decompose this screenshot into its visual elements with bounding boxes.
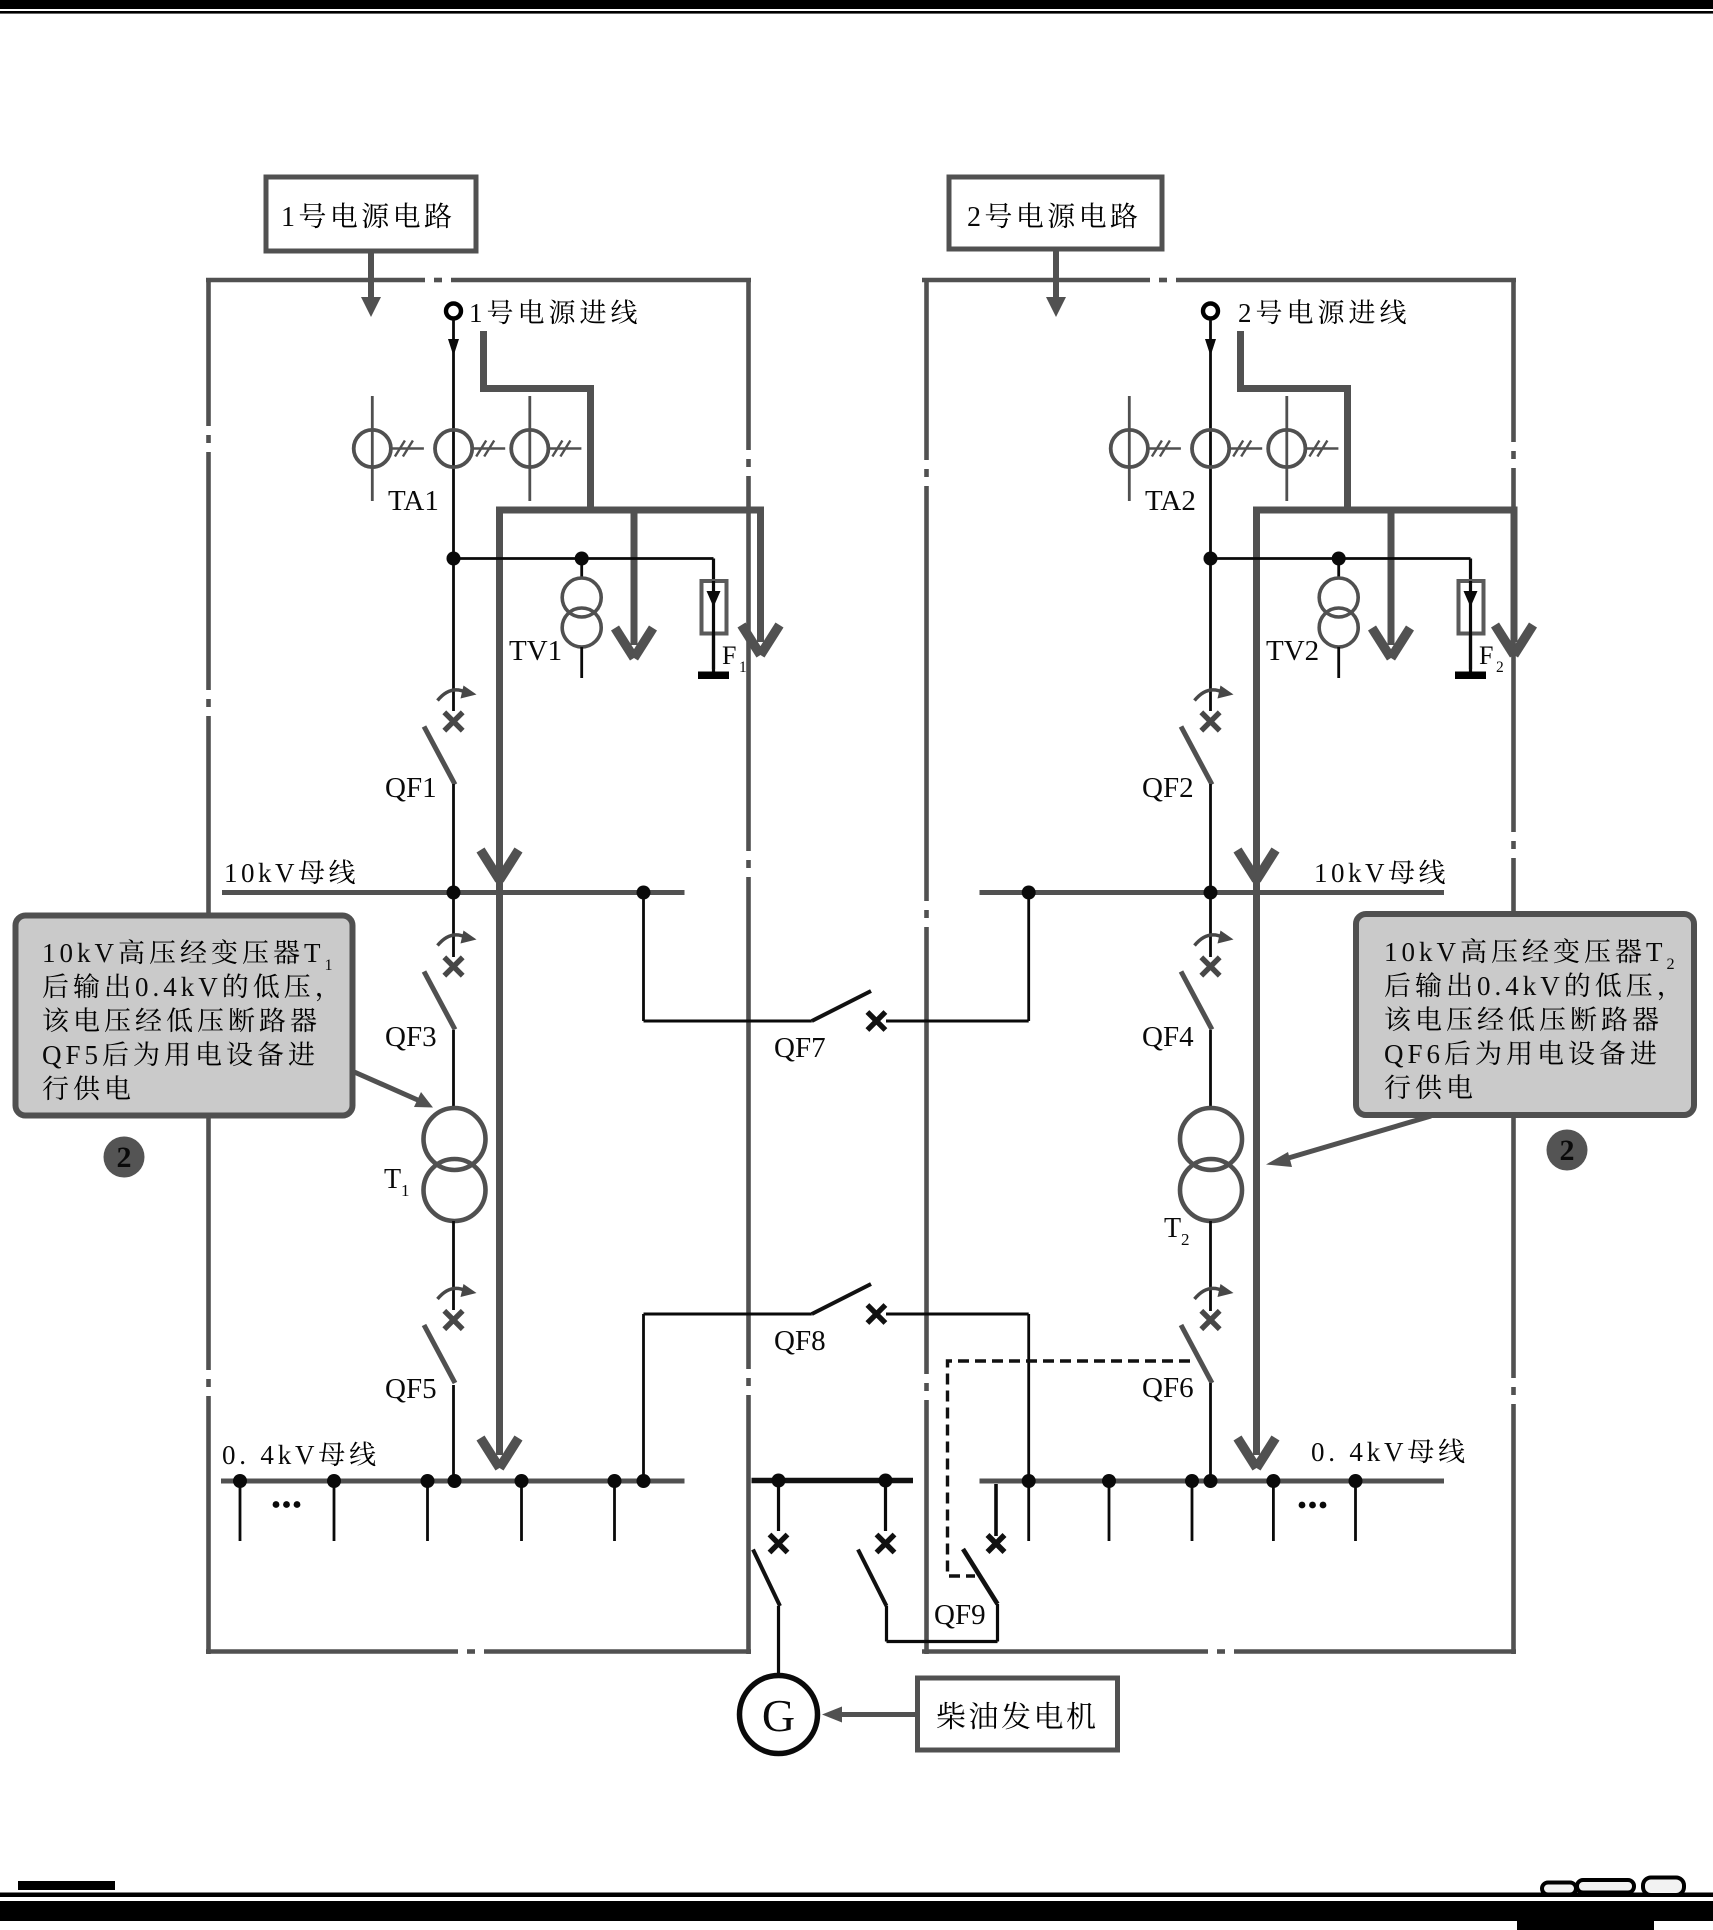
wire: QF1 to 10kV bus [452, 784, 455, 893]
svg-text:QF5: QF5 [42, 1040, 102, 1070]
current transformer TA1 [354, 396, 582, 501]
wire: QF2 to 10kV bus [1209, 784, 1212, 893]
wire: source2 main drop [1209, 319, 1212, 711]
voltage transformer TV1 [580, 559, 583, 579]
feeder bus path (source1, thick) [484, 331, 765, 1455]
circuit breaker QF3 [438, 935, 467, 946]
left cabinet enclosure (dash-dot boundary) [206, 278, 751, 1654]
svg-text:1: 1 [281, 202, 298, 233]
feeder bus path (source2, thick) [1241, 331, 1518, 1455]
svg-text:QF8: QF8 [774, 1325, 826, 1357]
wire: source1 main drop [452, 319, 455, 711]
svg-text:F: F [722, 641, 736, 670]
wire: QF4 to T2 [1209, 1030, 1212, 1108]
switch: generator feed (right) [884, 1484, 887, 1531]
circuit breaker QF8 (0.4kV bus tie) [642, 1314, 645, 1481]
fuse F1 [702, 581, 727, 634]
svg-text:10kV: 10kV [224, 858, 298, 888]
circuit breaker QF1 [438, 690, 467, 701]
svg-text:0.4kV: 0.4kV [135, 972, 222, 1002]
svg-text:T: T [1646, 937, 1667, 967]
svg-text:T: T [384, 1164, 401, 1195]
svg-text:QF7: QF7 [774, 1032, 826, 1064]
node: 10kV bus (left) [222, 890, 685, 895]
wire: QF4 feed from 10kV bus [1209, 893, 1212, 958]
numbered badge 2 (right) [1547, 1130, 1588, 1171]
svg-text:10kV: 10kV [1384, 937, 1460, 967]
wire: junction to TV1/F1 branch [454, 557, 714, 560]
svg-text:QF5: QF5 [385, 1373, 437, 1405]
wire: T2 to QF6 [1209, 1221, 1212, 1311]
terminal: 1号电源进线 inlet [446, 304, 461, 319]
svg-text:QF2: QF2 [1142, 772, 1194, 804]
circuit breaker QF7 (10kV bus tie) [642, 893, 645, 1022]
node: 0.4kV bus (right) [980, 1479, 1445, 1484]
svg-text:T: T [304, 938, 325, 968]
wire: T1 to QF5 [452, 1221, 455, 1310]
svg-text:TA1: TA1 [388, 485, 439, 517]
label box: 柴油发电机 [918, 1678, 1118, 1750]
transformer T2 [1180, 1108, 1242, 1170]
page footer rules [18, 1881, 115, 1890]
svg-text:2: 2 [1560, 1134, 1575, 1167]
right cabinet enclosure (dash-dot boundary) [922, 278, 1516, 1654]
numbered badge 2 (left) [104, 1137, 145, 1178]
svg-text:2: 2 [1666, 955, 1674, 973]
node: 0.4kV generator bus segment [752, 1478, 914, 1484]
svg-text:2: 2 [1238, 298, 1256, 328]
svg-text:T: T [1164, 1213, 1181, 1244]
svg-text:TV2: TV2 [1266, 635, 1319, 667]
svg-text:1: 1 [739, 659, 747, 676]
svg-text:2: 2 [1496, 659, 1504, 676]
current transformer TA2 [1111, 396, 1339, 501]
svg-text:1: 1 [324, 956, 332, 974]
arrow from 1号电源电路 box [368, 251, 374, 300]
terminal: 2号电源进线 inlet [1203, 304, 1218, 319]
generator G [740, 1676, 818, 1754]
wire: junction to TV2/F2 branch [1211, 557, 1471, 560]
label box: 1号电源电路 [266, 177, 476, 251]
svg-text:0. 4kV: 0. 4kV [1311, 1437, 1407, 1467]
svg-text:10kV: 10kV [42, 938, 118, 968]
page header rule [0, 0, 1713, 9]
svg-text:0. 4kV: 0. 4kV [222, 1440, 318, 1470]
svg-text:TV1: TV1 [509, 635, 562, 667]
wire: QF3 to T1 [452, 1030, 455, 1108]
svg-text:F: F [1479, 641, 1493, 670]
node: 10kV bus (right) [980, 890, 1445, 895]
svg-text:2: 2 [1181, 1230, 1190, 1249]
callout note (left): transformer T1 explanation [16, 916, 353, 1116]
svg-text:QF3: QF3 [385, 1021, 437, 1053]
arrow from 2号电源电路 box [1053, 249, 1059, 300]
circuit breaker QF5 [438, 1288, 467, 1299]
svg-text:QF4: QF4 [1142, 1021, 1194, 1053]
svg-text:1: 1 [469, 298, 487, 328]
svg-text:QF6: QF6 [1384, 1039, 1444, 1069]
wire: QF6 to 0.4kV bus [1209, 1383, 1212, 1481]
node: 0.4kV bus (left) [221, 1479, 685, 1484]
dashed link QF6-QF9 [948, 1361, 1191, 1576]
switch: generator feed (left) [777, 1484, 780, 1531]
callout arrow to T2 [1285, 1116, 1431, 1159]
arrow: 柴油发电机 to G [842, 1712, 917, 1717]
svg-text:0.4kV: 0.4kV [1477, 971, 1564, 1001]
circuit breaker QF6 [1195, 1288, 1224, 1299]
wire: QF5 to 0.4kV bus [452, 1385, 455, 1481]
transformer T1 [424, 1108, 486, 1170]
fuse F2 [1459, 581, 1484, 634]
svg-text:2: 2 [117, 1141, 132, 1174]
wire: QF3 feed from 10kV bus [452, 893, 455, 958]
svg-text:TA2: TA2 [1145, 485, 1196, 517]
callout note (right): transformer T2 explanation [1356, 914, 1694, 1115]
svg-text:QF6: QF6 [1142, 1372, 1194, 1404]
svg-text:QF9: QF9 [934, 1599, 986, 1631]
callout arrow to T1 [352, 1071, 420, 1101]
ground: F1 earth bar [698, 672, 729, 680]
circuit breaker QF9 [994, 1484, 998, 1536]
svg-text:10kV: 10kV [1314, 858, 1388, 888]
circuit breaker QF4 [1195, 935, 1224, 946]
svg-text:G: G [762, 1690, 795, 1741]
svg-text:2: 2 [967, 202, 984, 233]
label box: 2号电源电路 [949, 177, 1162, 249]
circuit breaker QF2 [1195, 690, 1224, 701]
svg-text:1: 1 [401, 1181, 410, 1200]
ground: F2 earth bar [1455, 672, 1486, 680]
voltage transformer TV2 [1337, 559, 1340, 579]
svg-text:QF1: QF1 [385, 772, 437, 804]
